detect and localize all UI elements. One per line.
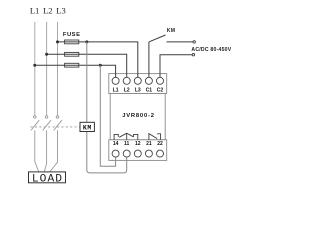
relay top terminal block	[109, 74, 167, 94]
svg-text:14: 14	[113, 141, 119, 147]
svg-text:KM: KM	[167, 28, 176, 34]
terminal L3 circle	[134, 77, 141, 84]
wire mechanical linkage dashed to KM coil	[31, 126, 80, 128]
KM coil box	[80, 122, 94, 131]
svg-text:22: 22	[157, 141, 163, 147]
fuse F3 body	[65, 63, 79, 67]
wire phase L2 vertical	[46, 22, 48, 116]
wire phase L3 vertical	[57, 22, 59, 116]
labels 14 11 12 21 22 terminals	[113, 141, 163, 147]
svg-text:JVR800-2: JVR800-2	[122, 113, 155, 119]
relay contact 21-22 symbol	[149, 134, 161, 140]
KM auxiliary contact (NO) top right	[149, 35, 193, 42]
wire coil branch: row1 down through KM coil to terminal 11	[87, 42, 127, 173]
terminal C2 circle	[157, 77, 164, 84]
svg-text:L1: L1	[30, 5, 40, 15]
terminal 14 circle	[112, 150, 119, 157]
wire fuse row 1 (L3 phase to terminal L3)	[58, 42, 138, 78]
svg-text:L3: L3	[56, 5, 66, 15]
wire riser C2 to supply terminal	[160, 55, 192, 78]
wire NO-contact branch: row3 down to terminal 14	[100, 65, 115, 166]
relay changeover contact 14-11-12 symbol	[114, 133, 138, 140]
svg-text:L2: L2	[124, 87, 130, 93]
contactor KM pole 2	[43, 116, 51, 172]
svg-text:21: 21	[146, 141, 152, 147]
wire fuse row 2 (L2 phase to terminal L2)	[47, 54, 127, 77]
relay device outline JVR800-2 body	[110, 94, 165, 140]
contactor KM pole 1	[31, 116, 39, 172]
svg-text:L2: L2	[43, 5, 53, 15]
svg-text:12: 12	[135, 141, 141, 147]
labels L1 L2 L3 C1 C2 terminals	[113, 87, 164, 93]
LOAD box	[29, 172, 66, 183]
svg-text:L1: L1	[113, 87, 119, 93]
svg-text:11: 11	[124, 141, 130, 147]
junction dot row1 to coil branch	[85, 40, 88, 43]
wire phase L1 vertical	[34, 22, 36, 116]
svg-text:C2: C2	[157, 87, 164, 93]
fuse F2 body	[65, 52, 79, 56]
terminal 21 circle	[145, 150, 152, 157]
svg-text:C1: C1	[146, 87, 153, 93]
junction dot row3 to terminal 14 branch	[99, 64, 102, 67]
contactor KM pole 3	[50, 116, 62, 172]
svg-text:LOAD: LOAD	[32, 173, 63, 185]
supply terminal circle top	[193, 41, 195, 43]
svg-text:FUSE: FUSE	[63, 32, 81, 38]
svg-text:KM: KM	[83, 124, 92, 131]
relay bottom terminal block	[109, 140, 167, 161]
terminal L2 circle	[123, 77, 130, 84]
terminal 22 circle	[157, 150, 164, 157]
terminal C1 circle	[145, 77, 152, 84]
wire riser C1 to KM aux contact pivot	[148, 42, 150, 78]
supply terminal circle bottom	[192, 54, 194, 56]
junction dot row3/L1 tap	[33, 64, 36, 67]
svg-text:AC/DC 80-450V: AC/DC 80-450V	[191, 47, 231, 53]
fuse F1 body	[65, 40, 79, 44]
svg-text:L3: L3	[135, 87, 141, 93]
terminal L1 circle	[112, 77, 119, 84]
junction dot row2/L2 tap	[45, 53, 48, 56]
wire fuse row 3 (L1 phase to terminal L1)	[35, 65, 116, 77]
junction dot row1/L3 tap	[56, 40, 59, 43]
terminal 12 circle	[134, 150, 141, 157]
terminal 11 circle	[123, 150, 130, 157]
